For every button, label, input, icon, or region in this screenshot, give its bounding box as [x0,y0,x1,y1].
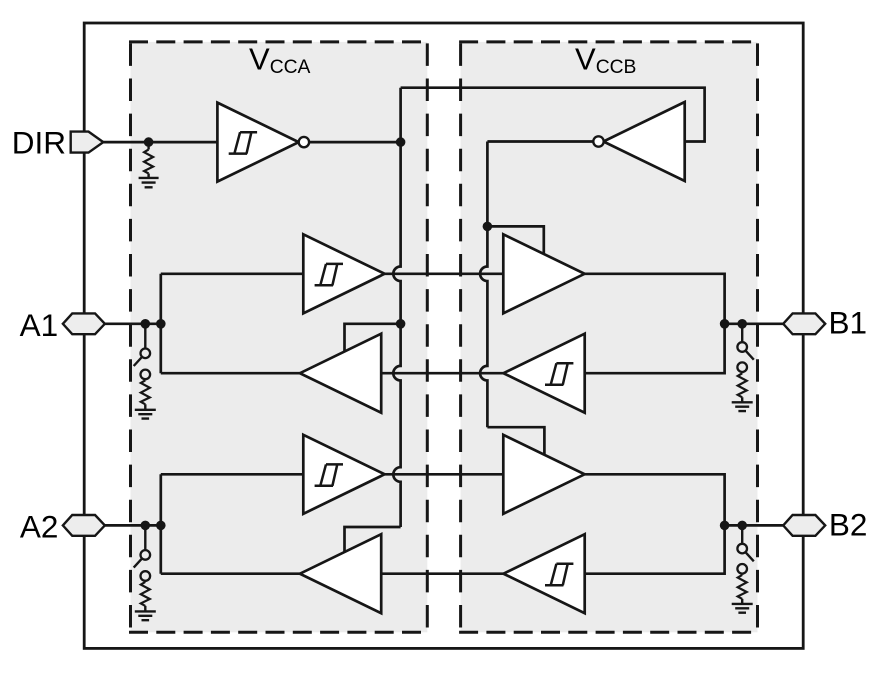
svg-text:A2: A2 [20,508,59,544]
svg-text:A1: A1 [20,307,59,343]
svg-text:B2: B2 [829,506,868,542]
svg-text:DIR: DIR [12,125,66,161]
svg-text:B1: B1 [829,305,868,341]
